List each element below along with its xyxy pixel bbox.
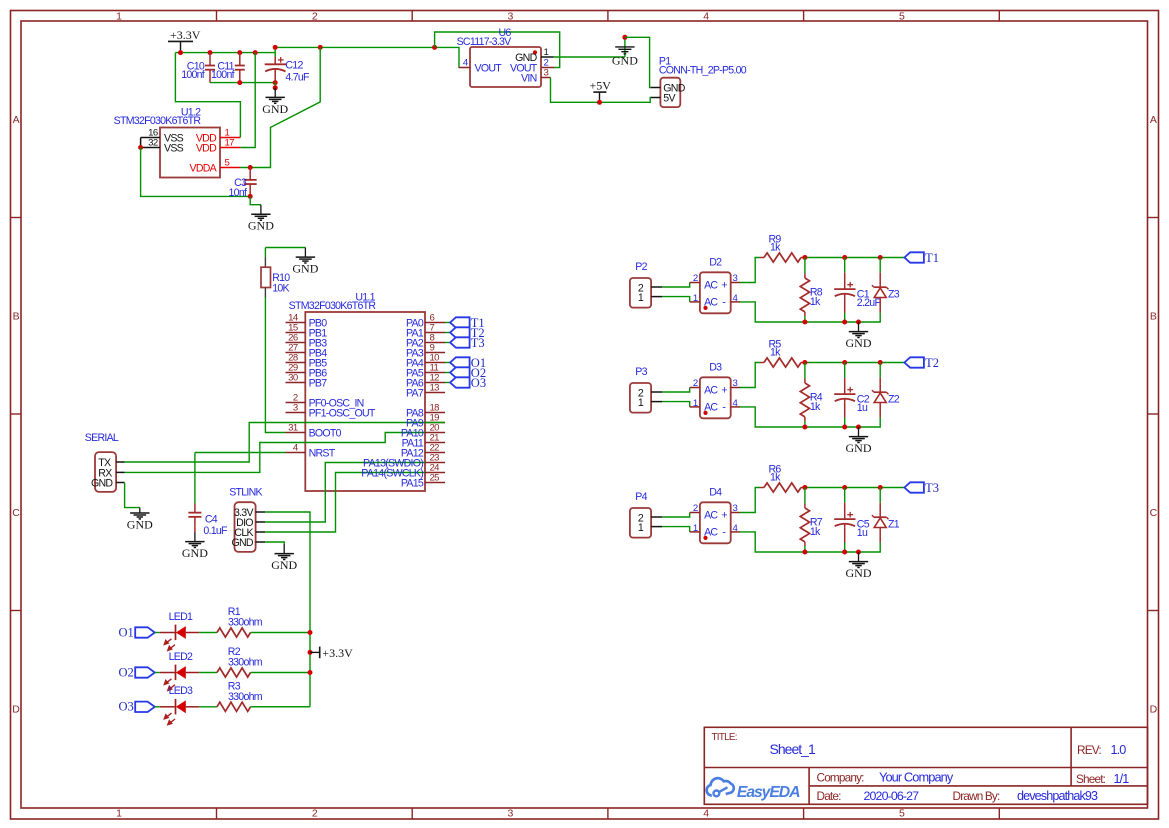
wire top rail to T2: [805, 362, 905, 364]
svg-text:3: 3: [733, 273, 738, 284]
net flag T2 at U1.1: [450, 326, 485, 340]
wire PA14 SWCLK to STLINK CLK: [265, 473, 425, 533]
U1.1 pin 13 PA7: [425, 383, 445, 394]
junction C2 bottom: [842, 425, 847, 430]
junction rail2 left: [273, 45, 278, 50]
wire D3 pin3 up to R5: [740, 363, 760, 388]
svg-text:1k: 1k: [810, 401, 821, 413]
junction Z1 top: [878, 485, 883, 490]
U1.1 pin 28 PB5: [286, 353, 328, 370]
junction C5 top: [842, 485, 847, 490]
power flag +5V: [590, 78, 612, 102]
wire SERIAL GND to ground: [125, 483, 140, 508]
svg-text:VIN: VIN: [521, 73, 537, 85]
svg-text:4: 4: [703, 11, 709, 23]
resistor R10: [261, 248, 290, 298]
wire PA10 to RX riser: [125, 433, 425, 473]
svg-text:SC1117-3.3V: SC1117-3.3V: [457, 36, 513, 48]
svg-text:3: 3: [733, 378, 738, 389]
wire VDDA net: [240, 47, 320, 167]
wire D3 pin4 to bottom rail: [740, 407, 880, 427]
svg-text:2: 2: [693, 378, 698, 389]
wire R1 to +3.3V rail: [251, 632, 311, 634]
svg-text:GND: GND: [182, 546, 208, 560]
svg-text:T3: T3: [925, 481, 939, 495]
junction VSS: [138, 145, 143, 150]
junction +5V: [597, 100, 602, 105]
STLINK pin GND: [231, 537, 265, 549]
wire C3 to ground: [250, 196, 261, 204]
svg-text:D3: D3: [709, 362, 722, 374]
svg-text:GND: GND: [231, 537, 253, 549]
svg-text:B: B: [1150, 311, 1157, 323]
svg-text:A: A: [13, 114, 20, 126]
svg-text:GND: GND: [91, 478, 113, 490]
wire C12 to ground: [274, 83, 276, 88]
IC U1.1 STM32F030K6T6TR: [289, 292, 425, 491]
wire PA to O1: [445, 362, 450, 364]
junction Z2 top: [878, 360, 883, 365]
svg-text:5: 5: [899, 11, 905, 23]
wire PA to T2: [445, 332, 450, 334]
svg-text:P3: P3: [635, 366, 647, 378]
junction Z3 top: [878, 255, 883, 260]
svg-text:1k: 1k: [770, 472, 781, 484]
svg-text:1k: 1k: [810, 526, 821, 538]
svg-text:C12: C12: [285, 59, 303, 71]
junction R9 right: [802, 255, 807, 260]
U6 pin 1 GND: [515, 47, 554, 64]
title block frame: [704, 727, 1147, 804]
svg-text:LED1: LED1: [169, 611, 193, 623]
svg-text:T2: T2: [925, 356, 939, 370]
svg-text:O3: O3: [471, 376, 486, 390]
wire D4 pin4 to bottom rail: [740, 532, 880, 552]
wire PA13 SWDIO to STLINK DIO: [265, 463, 425, 523]
junction C5 bottom: [842, 550, 847, 555]
svg-text:5: 5: [899, 808, 905, 820]
svg-text:30: 30: [288, 373, 298, 384]
ground top flipped: [612, 37, 638, 67]
wire P4 pin2 to D4 AC+: [662, 513, 689, 518]
svg-text:B: B: [13, 311, 20, 323]
border column numbers: [116, 11, 905, 820]
U6 pin 4 VOUT left: [459, 57, 503, 74]
svg-text:1: 1: [638, 292, 644, 304]
junction C11 bottom: [237, 80, 242, 85]
net flag T1: [904, 251, 939, 265]
wire PA to O2: [445, 372, 450, 374]
svg-text:PA15: PA15: [401, 478, 424, 490]
svg-text:EasyEDA: EasyEDA: [737, 784, 800, 801]
wire O3 to LED3: [155, 706, 160, 708]
LED LED3: [160, 685, 199, 725]
wire LED +3.3V rail corner: [251, 706, 311, 708]
IC U6 SC1117-3.3V: [457, 27, 541, 87]
svg-text:+: +: [721, 280, 727, 292]
svg-text:T1: T1: [925, 251, 939, 265]
wire R2 to +3.3V rail: [251, 672, 311, 674]
wire VSS tie: [140, 138, 142, 148]
connector STLINK: [229, 486, 262, 552]
ground T1 block: [846, 322, 872, 350]
wire STLINK GND to ground: [265, 542, 284, 544]
svg-text:330ohm: 330ohm: [228, 617, 263, 629]
svg-text:+: +: [721, 385, 727, 397]
wire O2 to LED2: [155, 672, 160, 674]
wire R10 top to ground: [265, 247, 305, 249]
junction C1 bottom: [842, 320, 847, 325]
border column ticks: [217, 11, 1000, 820]
wire NRST net: [195, 452, 286, 454]
svg-text:GND: GND: [271, 558, 297, 572]
capacitor C3: [229, 168, 257, 200]
U1.1 pin 15 PB1: [286, 323, 328, 340]
svg-text:3: 3: [508, 808, 514, 820]
U1.1 pin 9 PA3: [425, 343, 445, 354]
wire P2 pin1 to D2 AC-: [662, 297, 689, 302]
U1.1 pin 23 PA13(SWDIO): [425, 453, 445, 464]
svg-text:10K: 10K: [272, 283, 289, 295]
resistor R4 1k shunt: [800, 363, 823, 428]
U1.1 pin 26 PB3: [286, 333, 328, 350]
svg-text:1: 1: [693, 523, 698, 534]
P1 pin GND: [651, 83, 686, 95]
net flag O3: [119, 700, 155, 714]
svg-text:GND: GND: [127, 517, 153, 531]
svg-text:CONN-TH_2P-P5.00: CONN-TH_2P-P5.00: [659, 64, 747, 76]
ground near STLINK: [271, 544, 297, 572]
svg-text:1: 1: [638, 522, 644, 534]
svg-text:P4: P4: [635, 491, 647, 503]
svg-text:0.1uF: 0.1uF: [203, 525, 228, 537]
U6 pin 2 VOUT right: [510, 57, 554, 74]
connector P3: [630, 366, 651, 412]
U1.2 pin 5 VDDA: [190, 157, 240, 174]
U1.1 pin 18 PA8: [425, 403, 445, 414]
border row letters: [12, 114, 1157, 716]
svg-text:17: 17: [225, 137, 235, 148]
svg-text:GND: GND: [846, 566, 872, 580]
U1.1 pin 29 PB6: [286, 363, 328, 380]
svg-text:REV:: REV:: [1077, 743, 1101, 757]
svg-text:+3.3V: +3.3V: [322, 646, 353, 660]
junction O1 row: [308, 630, 313, 635]
svg-text:5V: 5V: [663, 93, 676, 105]
svg-text:Date:: Date:: [817, 789, 842, 803]
svg-text:STM32F030K6T6TR: STM32F030K6T6TR: [114, 115, 202, 127]
U1.1 pin 14 PB0: [286, 313, 328, 330]
connector P1 CONN-TH_2P-P5.00: [659, 55, 747, 107]
svg-text:5: 5: [225, 157, 230, 168]
P4 pin 2 line: [651, 516, 662, 518]
svg-text:SERIAL: SERIAL: [85, 432, 119, 444]
wire PA9 to TX riser: [125, 423, 445, 463]
svg-text:Your Company: Your Company: [879, 770, 954, 785]
wire LED1 to R1: [199, 632, 217, 634]
LED LED2: [160, 651, 199, 691]
junction C1 top: [842, 255, 847, 260]
wire P2 pin2 to D2 AC+: [662, 283, 689, 288]
svg-text:O2: O2: [119, 665, 134, 679]
net flag O1 at U1.1: [450, 356, 486, 370]
svg-text:D2: D2: [709, 257, 722, 269]
connector P4: [630, 491, 651, 537]
capacitor C2 1u: [834, 363, 870, 428]
wire LED2 to R2: [199, 672, 217, 674]
junction ground T1 block: [856, 320, 861, 325]
wire PA to T1: [445, 322, 450, 324]
U1.1 pin 22 PA12: [425, 443, 445, 454]
junction C2 top: [842, 360, 847, 365]
svg-text:D4: D4: [709, 487, 722, 499]
STLINK pin DIO: [236, 517, 265, 529]
STLINK pin 3.3V: [234, 507, 265, 519]
svg-text:Z2: Z2: [888, 394, 900, 406]
bridge rectifier D2: [690, 257, 740, 314]
net flag T1 at U1.1: [450, 316, 485, 330]
svg-text:A: A: [1150, 114, 1157, 126]
junction VDDA riser top: [318, 45, 323, 50]
svg-text:C: C: [1150, 507, 1158, 519]
svg-text:1k: 1k: [770, 347, 781, 359]
svg-text:GND: GND: [262, 102, 288, 116]
border row ticks: [11, 218, 1159, 611]
U1.2 pin 32 VSS: [141, 137, 184, 154]
svg-text:1.0: 1.0: [1111, 743, 1127, 757]
svg-text:Sheet_1: Sheet_1: [770, 741, 816, 757]
U1.1 pin 19 PA9: [425, 413, 445, 424]
svg-text:PF1-OSC_OUT: PF1-OSC_OUT: [309, 408, 376, 420]
net flag T2: [904, 356, 939, 370]
wire U6 output loop: [435, 32, 560, 68]
resistor R7 1k shunt: [800, 488, 823, 553]
svg-text:VDD: VDD: [196, 143, 217, 155]
U1.1 pin 2 PF0-OSC_IN: [286, 393, 364, 410]
svg-text:32: 32: [148, 137, 158, 148]
junction +3.3V: [178, 50, 183, 55]
wire R3 to +3.3V rail: [251, 706, 311, 708]
svg-text:STM32F030K6T6TR: STM32F030K6T6TR: [289, 300, 377, 312]
svg-text:1: 1: [693, 293, 698, 304]
svg-text:C4: C4: [205, 513, 218, 525]
U1.1 pin 12 PA6: [425, 373, 445, 384]
junction C10 top: [208, 50, 213, 55]
resistor R2 330ohm: [217, 646, 263, 677]
svg-text:+5V: +5V: [590, 78, 612, 92]
connector P2: [630, 261, 651, 307]
svg-text:LED3: LED3: [169, 685, 193, 697]
junction U6 GND: [622, 35, 627, 40]
IC U1.2 STM32F030K6T6TR power block: [114, 107, 220, 178]
junction O2 row: [308, 670, 313, 675]
svg-text:VOUT: VOUT: [475, 63, 503, 75]
resistor R5 1k: [760, 339, 805, 368]
svg-text:PB7: PB7: [309, 378, 328, 390]
capacitor C4: [188, 453, 228, 538]
svg-text:2: 2: [693, 273, 698, 284]
U1.2 pin 16 VSS: [141, 127, 184, 144]
svg-text:2.2uF: 2.2uF: [857, 297, 882, 309]
svg-text:VSS: VSS: [164, 143, 184, 155]
wire capacitor bottom rail: [210, 82, 275, 84]
net flag O2: [119, 665, 155, 679]
junction R8 bottom: [802, 320, 807, 325]
U1.1 pin 8 PA2: [425, 333, 445, 344]
zener diode Z2: [872, 363, 900, 418]
svg-text:D: D: [1150, 704, 1158, 716]
junction C3 bottom: [248, 194, 253, 199]
svg-text:2: 2: [312, 808, 318, 820]
svg-text:NRST: NRST: [309, 448, 336, 460]
wire PA to O3: [445, 382, 450, 384]
svg-text:GND: GND: [248, 219, 274, 233]
P3 pin 2 line: [651, 391, 662, 393]
resistor R8 1k shunt: [800, 258, 823, 323]
wire left rail down to U1.2: [175, 53, 240, 138]
svg-text:PA7: PA7: [406, 388, 424, 400]
capacitor C12: [265, 47, 310, 83]
svg-text:GND: GND: [846, 441, 872, 455]
svg-text:3: 3: [544, 67, 549, 78]
svg-text:STLINK: STLINK: [229, 486, 262, 498]
svg-text:GND: GND: [292, 262, 318, 276]
svg-text:O1: O1: [119, 625, 134, 639]
wire D2 pin4 to bottom rail: [740, 302, 880, 322]
net flag O2 at U1.1: [450, 366, 486, 380]
svg-text:1u: 1u: [857, 527, 868, 539]
bridge rectifier D3: [690, 362, 740, 419]
wire VSS to C3 bottom: [141, 148, 251, 197]
svg-text:1k: 1k: [770, 242, 781, 254]
svg-text:2: 2: [693, 503, 698, 514]
svg-text:T3: T3: [471, 336, 485, 350]
ground near C12: [262, 88, 288, 116]
svg-text:Drawn By:: Drawn By:: [953, 789, 1000, 803]
U1.1 pin 11 PA5: [425, 363, 445, 374]
wire C4 to ground: [194, 526, 196, 532]
wire O1 to LED1: [155, 632, 160, 634]
svg-text:Sheet:: Sheet:: [1076, 772, 1106, 786]
svg-text:AC: AC: [704, 510, 718, 522]
ground near C4: [182, 532, 208, 560]
bridge rectifier D4: [690, 487, 740, 544]
ground T2 block: [846, 427, 872, 455]
wire D2 pin3 up to R9: [740, 258, 760, 283]
connector SERIAL: [85, 432, 119, 492]
capacitor C5 1u: [834, 488, 870, 553]
wire U6 GND net: [554, 56, 625, 58]
STLINK pin CLK: [234, 527, 265, 539]
svg-text:25: 25: [430, 473, 440, 484]
svg-text:13: 13: [430, 383, 440, 394]
svg-text:330ohm: 330ohm: [228, 691, 263, 703]
svg-text:+3.3V: +3.3V: [170, 28, 201, 42]
svg-text:4.7uF: 4.7uF: [285, 72, 310, 84]
ground near SERIAL: [127, 508, 153, 532]
zener diode Z3: [872, 258, 900, 313]
U1.1 pin 6 PA0: [425, 313, 445, 324]
svg-text:3: 3: [293, 403, 298, 414]
wire R10 to BOOT0: [265, 298, 285, 433]
P4 pin 1 line: [651, 526, 662, 528]
P3 pin 1 line: [651, 401, 662, 403]
svg-text:31: 31: [288, 423, 298, 434]
capacitor C1 2.2uF: [834, 258, 881, 323]
svg-text:1: 1: [116, 11, 122, 23]
P2 pin 1 line: [651, 296, 662, 298]
svg-text:3: 3: [508, 11, 514, 23]
junction ground T3 block: [856, 550, 861, 555]
svg-text:100nf: 100nf: [211, 69, 235, 81]
SERIAL pin RX: [98, 468, 124, 480]
svg-text:1: 1: [693, 398, 698, 409]
svg-text:VDDA: VDDA: [190, 163, 218, 175]
junction R5 right: [802, 360, 807, 365]
U1.1 pin 31 BOOT0: [286, 423, 342, 440]
zener diode Z1: [872, 488, 900, 543]
svg-text:1/1: 1/1: [1114, 772, 1130, 786]
resistor R1 330ohm: [217, 606, 263, 637]
junction VDD17 riser top: [253, 50, 258, 55]
junction R6 right: [802, 485, 807, 490]
U1.1 pin 21 PA11: [425, 433, 445, 444]
U1.1 pin 3 PF1-OSC_OUT: [286, 403, 376, 420]
P1 pin 5V: [651, 93, 677, 105]
U1.1 pin 4 NRST: [286, 443, 336, 460]
svg-text:+: +: [721, 510, 727, 522]
svg-text:4: 4: [703, 808, 709, 820]
svg-text:GND: GND: [612, 54, 638, 68]
svg-text:O3: O3: [119, 700, 134, 714]
EasyEDA logo: [707, 778, 800, 801]
LED LED1: [160, 611, 199, 651]
wire +3.3V rail to U6: [275, 47, 459, 67]
svg-text:Company:: Company:: [817, 771, 865, 785]
U1.1 pin 20 PA10: [425, 423, 445, 434]
SERIAL pin TX: [98, 457, 124, 469]
svg-text:Z3: Z3: [888, 289, 900, 301]
wire PA to T3: [445, 342, 450, 344]
U1.1 pin 24 PA14(SWCLK): [425, 463, 445, 474]
wire D4 pin3 up to R6: [740, 488, 760, 513]
junction C12 bottom: [273, 80, 278, 85]
ground near C3: [248, 205, 274, 233]
resistor R6 1k: [760, 464, 805, 493]
svg-text:P2: P2: [635, 261, 647, 273]
wire P3 pin2 to D3 AC+: [662, 388, 689, 393]
capacitor C10: [181, 53, 215, 83]
resistor R3 330ohm: [217, 680, 263, 711]
svg-text:BOOT0: BOOT0: [309, 428, 342, 440]
wire VIN to +5V to P1 5V: [551, 78, 652, 103]
svg-text:Z1: Z1: [888, 519, 900, 531]
wire +3.3V rail: [175, 52, 275, 54]
svg-text:C: C: [12, 507, 20, 519]
junction R4 bottom: [802, 425, 807, 430]
wire top rail to T3: [805, 487, 905, 489]
U6 pin 3 VIN: [521, 67, 550, 84]
P2 pin 2 line: [651, 286, 662, 288]
ground T3 block: [846, 552, 872, 580]
power flag +3.3V at LED rail: [310, 646, 353, 660]
wire VDD17 riser: [240, 53, 255, 148]
U1.1 pin 25 PA15: [425, 473, 445, 484]
svg-text:AC: AC: [704, 385, 718, 397]
U1.1 pin 27 PB4: [286, 343, 328, 360]
junction VDDA: [248, 165, 253, 170]
svg-text:100nf: 100nf: [181, 69, 205, 81]
